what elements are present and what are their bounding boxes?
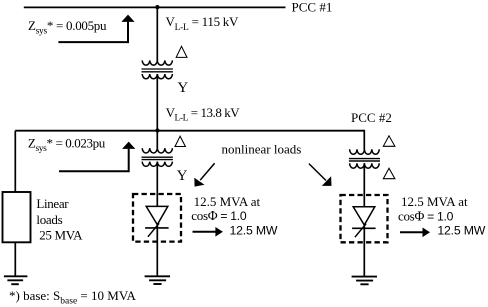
svg-text:Y: Y — [177, 80, 188, 96]
thyristor (left rectifier) gate slash — [148, 223, 159, 237]
ground (right rectifier) — [352, 277, 377, 285]
svg-text:12.5 MVA at: 12.5 MVA at — [401, 194, 468, 209]
thyristor (right rectifier) gate slash — [355, 224, 366, 238]
wire: 13.8 kV bus corner down to transformer T3 — [363, 130, 365, 150]
arrow wire to right rectifier — [309, 164, 326, 181]
arrow head to right rectifier — [322, 176, 332, 186]
linear load box — [3, 192, 31, 242]
arrow head to left rectifier — [194, 178, 204, 187]
svg-text:PCC #1: PCC #1 — [292, 0, 333, 14]
impedance arrow for Zsys 0.005pu (wire) — [58, 22, 128, 43]
thyristor (right rectifier) anode triangle — [353, 207, 375, 225]
transformer T1 core lines — [142, 68, 173, 70]
svg-text:12.5 MW: 12.5 MW — [437, 224, 485, 238]
wire: left rectifier to ground — [156, 225, 158, 276]
wire: T2 to left rectifier — [156, 162, 158, 207]
impedance arrow for Zsys 0.023pu (wire) — [59, 149, 129, 171]
label delta (T1 primary) — [176, 46, 187, 57]
svg-text:PCC #2: PCC #2 — [351, 110, 392, 125]
transformer T2 core lines — [142, 156, 173, 158]
wire: T1 to 13.8 kV bus — [156, 74, 158, 131]
wire: T3 to right rectifier — [363, 163, 365, 207]
ground (linear load) — [4, 276, 28, 284]
wire: right rectifier to ground — [363, 225, 365, 276]
transformer T1 secondary winding — [142, 74, 172, 79]
bus PCC #1 (115 kV bus) — [24, 6, 286, 8]
svg-text:loads: loads — [36, 212, 62, 227]
power flow arrow (left) head — [215, 227, 223, 237]
transformer T1 primary winding — [142, 60, 172, 65]
svg-text:nonlinear loads: nonlinear loads — [222, 142, 302, 157]
nonlinear load box right (dashed) — [341, 195, 388, 242]
transformer T3 primary winding — [350, 149, 380, 154]
svg-text:25 MVA: 25 MVA — [39, 228, 83, 243]
nonlinear load box left (dashed) — [133, 194, 181, 242]
impedance arrow head (up) — [122, 142, 135, 149]
transformer T3 secondary winding — [350, 163, 380, 168]
power flow arrow (right) head — [423, 228, 431, 238]
svg-text:Y: Y — [177, 168, 188, 184]
bus 13.8 kV — [15, 130, 364, 132]
svg-text:cosΦ = 1.0: cosΦ = 1.0 — [398, 209, 454, 224]
ground (left rectifier) — [145, 276, 170, 284]
transformer T2 secondary winding — [142, 162, 172, 167]
node: junction dot on 115 kV bus — [155, 5, 159, 9]
svg-text:12.5 MW: 12.5 MW — [230, 223, 278, 237]
transformer T3 core lines — [349, 158, 380, 160]
label delta (T3 secondary) — [383, 168, 395, 179]
wire: 115 kV bus to transformer T1 — [156, 7, 158, 60]
wire: 13.8 kV bus to linear load box — [14, 131, 16, 192]
svg-text:Linear: Linear — [36, 196, 69, 211]
thyristor (right rectifier) cathode bar — [352, 227, 376, 229]
thyristor (left rectifier) anode triangle — [146, 206, 168, 224]
thyristor (left rectifier) cathode bar — [145, 227, 169, 229]
transformer T2 primary winding — [142, 148, 172, 153]
label delta (T3 primary) — [383, 136, 395, 147]
power flow arrow (right) wire — [400, 231, 423, 233]
wire: linear load box to ground — [14, 242, 16, 276]
label delta (T2 primary) — [175, 136, 185, 146]
wire: 13.8 kV bus to transformer T2 — [156, 131, 158, 149]
node: junction dot on 13.8 kV bus — [155, 128, 159, 132]
arrow wire to left rectifier — [200, 163, 214, 180]
impedance arrow head (up) — [121, 15, 134, 22]
svg-text:cosΦ = 1.0: cosΦ = 1.0 — [191, 208, 247, 223]
power flow arrow (left) wire — [193, 231, 217, 233]
